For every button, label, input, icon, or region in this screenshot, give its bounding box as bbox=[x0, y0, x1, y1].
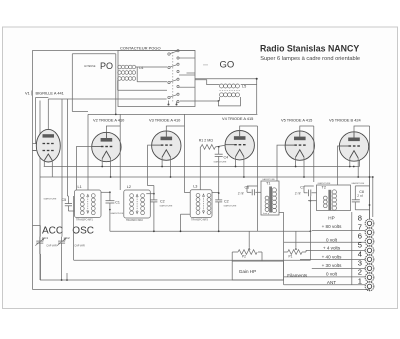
svg-text:TRANSFO MF3: TRANSFO MF3 bbox=[191, 219, 209, 222]
svg-text:haut p: haut p bbox=[263, 212, 270, 215]
svg-text:0 volt: 0 volt bbox=[326, 272, 338, 277]
svg-text:C8: C8 bbox=[359, 190, 364, 194]
svg-text:ANT: ANT bbox=[327, 280, 336, 285]
svg-text:2 nf: 2 nf bbox=[238, 191, 244, 195]
svg-text:GARNITURE: GARNITURE bbox=[44, 197, 57, 200]
svg-text:HP: HP bbox=[328, 216, 334, 221]
svg-text:6: 6 bbox=[358, 232, 362, 241]
svg-text:Radio Stanislas NANCY: Radio Stanislas NANCY bbox=[260, 44, 359, 54]
svg-text:C2: C2 bbox=[160, 200, 165, 204]
svg-text:GARNITURE: GARNITURE bbox=[262, 178, 275, 181]
svg-text:ANTENNE: ANTENNE bbox=[84, 65, 96, 68]
svg-text:TRANSFO MF2: TRANSFO MF2 bbox=[126, 219, 144, 222]
svg-text:OSC: OSC bbox=[72, 226, 94, 237]
svg-text:3: 3 bbox=[358, 259, 362, 268]
svg-text:C2: C2 bbox=[224, 200, 229, 204]
svg-text:T2: T2 bbox=[322, 186, 326, 190]
svg-text:V5 TRIODE A 415: V5 TRIODE A 415 bbox=[281, 118, 312, 123]
svg-text:+ 80 volts: + 80 volts bbox=[322, 224, 342, 229]
svg-text:CAP VAR: CAP VAR bbox=[46, 244, 57, 247]
svg-text:1: 1 bbox=[358, 277, 362, 286]
svg-text:V6 TRIODE B 424: V6 TRIODE B 424 bbox=[329, 118, 362, 123]
svg-text:PO: PO bbox=[100, 61, 113, 71]
svg-text:T1: T1 bbox=[266, 182, 270, 186]
svg-text:C1: C1 bbox=[115, 200, 120, 204]
svg-text:L2: L2 bbox=[127, 185, 131, 189]
svg-text:V4 TRIODE A 415: V4 TRIODE A 415 bbox=[222, 116, 253, 121]
svg-text:Gain HP: Gain HP bbox=[239, 269, 256, 274]
svg-text:CONTACTEUR POGO: CONTACTEUR POGO bbox=[120, 45, 161, 50]
svg-text:L1: L1 bbox=[78, 185, 82, 189]
svg-text:2: 2 bbox=[358, 268, 362, 277]
svg-text:P2: P2 bbox=[242, 255, 246, 259]
svg-text:7: 7 bbox=[358, 223, 362, 232]
svg-text:CAP VAR: CAP VAR bbox=[74, 244, 85, 247]
svg-text:C4: C4 bbox=[224, 156, 229, 160]
svg-text:4: 4 bbox=[358, 250, 362, 259]
svg-text:0 volt: 0 volt bbox=[326, 238, 338, 243]
svg-text:+ 4 volts: + 4 volts bbox=[323, 246, 341, 251]
svg-text:GARNITURE: GARNITURE bbox=[351, 182, 364, 185]
svg-text:‹‹‹‹‹: ‹‹‹‹‹ bbox=[203, 63, 208, 67]
svg-text:+ 30 volts: + 30 volts bbox=[322, 263, 342, 268]
svg-text:GARNITURE: GARNITURE bbox=[224, 204, 237, 207]
svg-text:+ 40 volts: + 40 volts bbox=[322, 255, 342, 260]
svg-text:V3 TRIODE A 410: V3 TRIODE A 410 bbox=[149, 118, 181, 123]
svg-text:GARNITURE: GARNITURE bbox=[318, 182, 331, 185]
svg-text:R1 2 MΩ: R1 2 MΩ bbox=[199, 139, 214, 143]
svg-text:GARNITURE: GARNITURE bbox=[214, 161, 227, 164]
svg-text:8: 8 bbox=[358, 214, 362, 223]
svg-text:V1: V1 bbox=[25, 90, 30, 95]
svg-text:GO: GO bbox=[220, 60, 235, 71]
svg-text:P1: P1 bbox=[289, 255, 293, 259]
svg-text:GARNITURE: GARNITURE bbox=[160, 204, 173, 207]
svg-text:BIGRILLE A 441: BIGRILLE A 441 bbox=[36, 90, 64, 95]
svg-text:2 nf: 2 nf bbox=[295, 192, 301, 196]
svg-text:5: 5 bbox=[358, 241, 362, 250]
svg-text:Filaments: Filaments bbox=[287, 273, 308, 278]
svg-text:L5: L5 bbox=[242, 85, 246, 89]
svg-text:L3: L3 bbox=[193, 185, 197, 189]
svg-text:L4: L4 bbox=[139, 66, 143, 70]
svg-text:GARNITURE: GARNITURE bbox=[110, 212, 123, 215]
svg-text:Super 6 lampes à cadre rond or: Super 6 lampes à cadre rond orientable bbox=[260, 56, 360, 62]
svg-text:TRANSFO MF1: TRANSFO MF1 bbox=[76, 219, 94, 222]
svg-text:2 nf: 2 nf bbox=[357, 194, 362, 198]
